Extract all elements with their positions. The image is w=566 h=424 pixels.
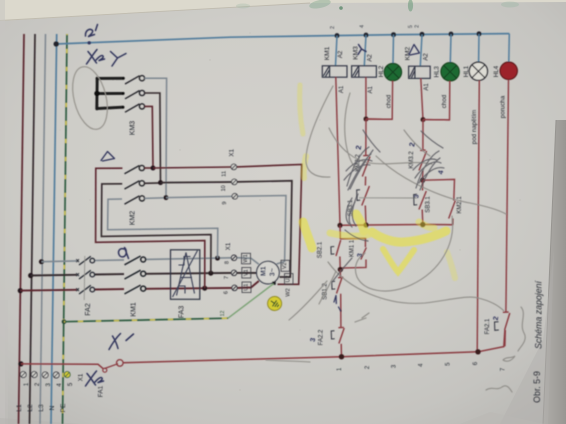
breaker FA2 pole 3 — [76, 285, 94, 294]
contactor KM3 pole 3 — [125, 104, 145, 112]
node KM2/KM3 output black — [158, 180, 163, 185]
annotation X2 near FA1 — [86, 371, 97, 386]
svg-text:KM2.1: KM2.1 — [457, 196, 463, 214]
svg-text:L3: L3 — [38, 404, 45, 412]
breaker FA2 pole 2 — [76, 270, 94, 279]
button SB3.2 (left branch) — [362, 186, 370, 225]
node SB2.1/KM1.1 bottom — [338, 267, 343, 272]
svg-text:chod: chod — [441, 94, 448, 108]
node motor PE connection — [272, 281, 275, 284]
svg-text:porucha: porucha — [500, 95, 507, 118]
svg-text:V1: V1 — [243, 269, 249, 276]
node PE tap — [62, 319, 67, 324]
svg-text:KM1: KM1 — [131, 302, 138, 317]
terminal X1:3 — [42, 372, 48, 378]
node FA3 output (black) — [208, 271, 213, 276]
svg-text:3~: 3~ — [269, 268, 276, 276]
wire power row L3 (gray, top) — [42, 260, 77, 263]
annotation triangle above KM2 coil — [409, 45, 420, 56]
terminal box U2 — [285, 274, 294, 285]
svg-text:A1: A1 — [339, 85, 345, 93]
svg-text:L2: L2 — [27, 404, 34, 412]
node rail start — [54, 41, 59, 46]
contact FA2.1 (in HL4 branch) — [503, 312, 510, 346]
node KM2/KM3 output red — [151, 166, 156, 171]
overload relay FA3 box — [171, 250, 200, 299]
svg-text:N: N — [49, 405, 56, 410]
right edge of paper / table background — [543, 120, 566, 424]
svg-text:8: 8 — [225, 261, 231, 264]
node L1 tap to FA1 control feed — [18, 361, 23, 366]
terminal X1:1 — [20, 372, 26, 378]
svg-text:HL4: HL4 — [493, 65, 500, 77]
wire KM2 feed (black) — [101, 184, 211, 273]
svg-text:HL3: HL3 — [434, 66, 441, 78]
wire N control rail (blue, top) — [56, 34, 509, 44]
contactor KM1 main pole 3 — [125, 285, 146, 294]
svg-text:HL2: HL2 — [378, 65, 385, 77]
svg-text:SB3.1: SB3.1 — [426, 196, 432, 213]
terminal X1:9 — [232, 194, 238, 200]
wire L2 supply line — [30, 34, 36, 424]
node L3 tap — [39, 259, 44, 264]
wire HL1 down to bottom rail — [477, 80, 479, 352]
contactor KM2 pole 1 — [125, 165, 145, 173]
contact FA2.2 — [338, 327, 344, 356]
svg-text:12: 12 — [220, 311, 226, 317]
svg-text:7: 7 — [224, 276, 230, 279]
contactor KM3 pole 1 — [125, 76, 145, 84]
svg-text:L1: L1 — [16, 404, 23, 412]
svg-text:FA3: FA3 — [179, 306, 186, 319]
lamp HL2 (green) — [392, 35, 395, 64]
wire L1 supply line — [19, 34, 25, 424]
node KM2/KM3 output gray — [164, 195, 169, 200]
terminal X1:2 — [31, 372, 37, 378]
lamp HL4 (red, porucha) — [508, 34, 511, 63]
contact KM3.2 (left branch NC) — [362, 119, 370, 186]
svg-text:KM1 1: KM1 1 — [350, 239, 356, 257]
svg-text:KM3: KM3 — [129, 121, 136, 136]
node mid rail KM2 branch — [420, 222, 425, 227]
button SB3.1 (right branch) — [419, 180, 426, 224]
annotation: yellow highlighter strokes — [300, 85, 455, 278]
wire power row L2 (black, middle) — [31, 274, 77, 277]
lamp HL1 (white, pod napetim) — [478, 34, 480, 62]
left edge shading — [0, 0, 5, 424]
annotation: dark pen scribbles over interlocks — [333, 130, 444, 281]
svg-text:FA1: FA1 — [98, 385, 105, 397]
svg-text:11: 11 — [222, 171, 228, 177]
svg-text:A1: A1 — [424, 83, 430, 91]
wire L3 supply line — [40, 34, 46, 424]
svg-text:10: 10 — [221, 185, 227, 191]
terminal X1:4 — [53, 372, 59, 378]
wire KM2 feed (red) from FA3 output — [96, 168, 205, 288]
svg-text:chod: chod — [386, 94, 393, 108]
svg-text:A2: A2 — [423, 53, 429, 61]
annotation: small ink digits — [310, 142, 501, 343]
node mid rail left — [337, 223, 342, 228]
svg-text:X1: X1 — [229, 148, 236, 156]
wire KM3 pole3 output (red) — [145, 106, 153, 168]
svg-text:FA2.2: FA2.2 — [319, 329, 325, 345]
svg-text:2: 2 — [415, 25, 421, 28]
svg-text:M1: M1 — [261, 266, 268, 276]
annotation: handwritten ink marks (dark blue) — [85, 25, 419, 387]
wire HL4 down — [506, 80, 509, 312]
svg-text:FA2.1: FA2.1 — [485, 318, 491, 334]
svg-text:X1: X1 — [225, 242, 232, 250]
svg-text:KM3.2: KM3.2 — [409, 151, 415, 169]
terminal X1:8 — [231, 255, 237, 261]
svg-text:U2: U2 — [286, 275, 292, 282]
contactor KM1 main pole 1 — [125, 256, 146, 265]
svg-text:W2: W2 — [286, 288, 292, 296]
terminal X1:5 (PE, yellow) — [64, 372, 70, 378]
button SB2.1 (start) — [336, 225, 341, 269]
annotation Y star mark — [111, 52, 127, 67]
svg-text:Schéma zapojení: Schéma zapojení — [534, 279, 544, 349]
annotation Y above KM3 coil — [358, 45, 366, 55]
svg-text:U1: U1 — [244, 284, 250, 291]
terminal X1:7 — [231, 270, 237, 276]
wire bottom control rail — [123, 330, 505, 363]
node mid rail KM3 branch — [363, 222, 368, 227]
wire KM2 A1 down to node — [421, 78, 423, 119]
star point comb (hand retraced) — [97, 78, 123, 109]
breaker FA2 pole 1 — [76, 256, 94, 265]
node KM3/HL2 — [364, 117, 369, 122]
node FA3 output (red) — [202, 286, 207, 291]
annotation 1 and tick near SB1.2 — [334, 296, 336, 304]
annotation triangle delta left — [101, 152, 115, 162]
wire U2 row (red) to motor W2 — [153, 164, 302, 284]
wire KM2 outputs to row nodes — [144, 167, 153, 169]
node FA3 output to delta bundle (gray) — [215, 256, 220, 261]
svg-text:X1: X1 — [77, 373, 84, 381]
svg-text:HL1: HL1 — [463, 65, 470, 77]
wire HL3 down / left to node — [423, 81, 450, 120]
button SB1.2 (stop NC) — [337, 270, 344, 328]
annotation check near FA1 — [109, 334, 134, 350]
annotation: pencil ellipse around star comb — [67, 63, 114, 133]
contact KM1.1 (latch) — [340, 238, 366, 268]
coil KM3 — [364, 35, 366, 66]
contact KM3.2 (right branch NC) — [419, 120, 427, 181]
node right branch split — [420, 178, 425, 183]
svg-text:A1: A1 — [368, 85, 374, 93]
terminal X1:6 — [232, 285, 238, 291]
FA3 internal heater symbols — [173, 251, 198, 298]
svg-text:A2: A2 — [338, 50, 344, 58]
contactor KM1 main pole 2 — [125, 270, 146, 279]
svg-text:2: 2 — [330, 26, 336, 29]
contactor KM2 pole 2 — [125, 181, 145, 189]
annotation 2- top — [85, 29, 94, 36]
bottom right shadow — [500, 250, 554, 424]
contactor KM3 pole 2 — [125, 90, 145, 98]
node L2 tap — [28, 273, 33, 278]
coil KM2 — [420, 34, 422, 66]
node bottom rail HL1 — [475, 349, 480, 354]
svg-text:V2: V2 — [282, 262, 288, 269]
wire PE dashed run to motor — [64, 318, 228, 322]
top paper strip above crease — [0, 0, 566, 21]
svg-text:W1: W1 — [243, 254, 249, 262]
wire KM3 A1 down to node — [365, 77, 367, 119]
PE earth terminal (yellow circle) — [268, 297, 282, 311]
svg-text:9: 9 — [222, 201, 228, 204]
svg-text:KM2: KM2 — [129, 211, 136, 226]
wire N supply line — [51, 34, 57, 424]
wire power row L1 (dark red, bottom) — [20, 289, 76, 292]
terminal boxes W1 V1 U1 — [242, 253, 252, 292]
svg-text:SB2.1: SB2.1 — [318, 241, 324, 258]
terminal X1:11 — [231, 164, 237, 170]
node rail taps — [335, 33, 340, 38]
wire KM3 pole2 output (black) — [145, 93, 161, 183]
svg-text:pod napětím: pod napětím — [471, 110, 478, 144]
node comb junction — [94, 91, 99, 96]
svg-text:5: 5 — [408, 25, 414, 28]
FA2 mechanical link — [83, 256, 86, 300]
node KM2/HL3 — [421, 117, 426, 122]
green smudges top — [308, 0, 331, 10]
annotation X2 top — [87, 50, 98, 65]
fuse-switch FA1 — [21, 364, 103, 369]
wire PE supply line (green/yellow) — [63, 34, 68, 424]
wire KM2 feed (gray) — [108, 199, 218, 258]
wire HL2 down / left to node — [366, 81, 393, 120]
SB3 mechanical link — [359, 197, 417, 199]
contactor KM2 pole 3 — [125, 196, 145, 204]
lamp HL3 (green) — [449, 34, 452, 63]
wire KM3 pole1 output (gray) — [145, 78, 167, 197]
svg-text:Obr. 5-9: Obr. 5-9 — [532, 371, 542, 403]
node L1 tap to FA2 row — [18, 288, 23, 293]
annotation a-arrow left — [119, 248, 129, 259]
wire W2 row (gray) to motor V2 — [166, 196, 286, 265]
svg-text:A2: A2 — [368, 54, 374, 62]
svg-text:KM1: KM1 — [324, 46, 331, 60]
node bottom rail FA2.2 — [339, 354, 344, 359]
terminal X1:10 — [232, 179, 238, 185]
wire node KM3 branch to HL2 connector — [366, 118, 392, 120]
wire KM1 A1 down — [336, 77, 340, 225]
wire mid rail — [340, 224, 453, 227]
paper speckles — [60, 32, 521, 390]
annotation: pencil scribbles (light) — [266, 86, 525, 392]
svg-text:6: 6 — [224, 291, 230, 294]
svg-text:FA2: FA2 — [85, 303, 92, 316]
svg-text:PE: PE — [60, 403, 67, 412]
wire V2 row (black) to motor U2 — [161, 181, 292, 277]
terminal box V2 — [281, 260, 290, 271]
coil KM1 — [336, 36, 338, 66]
contact KM2.1 (latch, right) — [423, 179, 456, 224]
motor M1 circle — [257, 261, 280, 284]
svg-text:4: 4 — [360, 25, 366, 28]
